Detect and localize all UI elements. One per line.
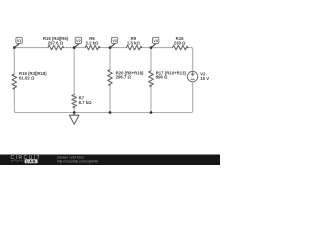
node label box V1 <box>14 43 19 47</box>
resistor R6 zigzag <box>85 45 99 50</box>
svg-text:V3: V3 <box>112 39 117 43</box>
svg-text:1.5 kΩ: 1.5 kΩ <box>127 40 141 45</box>
svg-text:296.7 Ω: 296.7 Ω <box>116 75 132 80</box>
svg-text:http://circuitlab.com/cqb/948: http://circuitlab.com/cqb/948 <box>57 159 98 163</box>
logo LAB box <box>25 159 38 163</box>
resistor R9 zigzag <box>127 45 142 50</box>
logo waveform <box>11 159 23 161</box>
svg-text:3.2 kΩ: 3.2 kΩ <box>85 40 99 45</box>
wire top mid3 <box>140 47 172 49</box>
wire source bottom vertical <box>191 82 193 113</box>
watermark bar <box>0 155 220 166</box>
svg-text:15 V: 15 V <box>200 76 209 81</box>
wire branch V3 vertical lower <box>109 84 111 113</box>
svg-text:V1: V1 <box>17 39 22 43</box>
junction node V1 corner <box>13 46 16 49</box>
voltage source plus sign <box>191 73 194 76</box>
resistor R19 (R3||R18) zigzag vertical <box>12 74 17 89</box>
resistor R7 zigzag vertical <box>72 95 77 108</box>
wire top mid1 <box>63 47 85 49</box>
svg-text:239 Ω: 239 Ω <box>174 40 186 45</box>
junction node bottom R20 <box>109 111 112 114</box>
junction node V2 top <box>73 46 76 49</box>
resistor R18 (R4||R5) zigzag <box>48 45 63 50</box>
wire top mid2 <box>99 47 127 49</box>
wire branch V2 vertical lower <box>73 106 75 112</box>
resistor R16 zigzag <box>173 45 188 50</box>
wire top horizontal <box>14 47 48 49</box>
junction node bottom ground <box>73 111 76 114</box>
node label box V2 <box>74 43 79 47</box>
junction node V3 top <box>109 46 112 49</box>
wire branch V3 vertical upper <box>109 48 111 70</box>
wire left vertical upper <box>13 48 15 74</box>
ground symbol <box>69 113 79 125</box>
node label box V3 <box>110 43 115 47</box>
svg-text:896 Ω: 896 Ω <box>156 75 168 80</box>
resistor R20 (R8+R16) zigzag vertical <box>108 70 113 86</box>
voltage source minus sign <box>191 78 194 80</box>
wire branch V4 vertical upper <box>150 48 152 71</box>
wire top right + corner down to source <box>187 48 193 72</box>
svg-text:V2: V2 <box>76 39 81 43</box>
wire left vertical lower <box>14 88 16 113</box>
wire branch V4 vertical lower <box>150 85 152 112</box>
junction node bottom R17 <box>150 111 153 114</box>
wire branch V2 vertical upper <box>73 48 75 95</box>
svg-text:297.6 Ω: 297.6 Ω <box>48 40 64 45</box>
resistor R17 (R10+R13) zigzag vertical <box>149 71 154 87</box>
node label box V4 <box>151 43 156 47</box>
junction node V4 top <box>150 46 153 49</box>
wire bottom horizontal <box>16 112 191 114</box>
voltage source V2 circle <box>187 71 197 81</box>
svg-text:8.7 kΩ: 8.7 kΩ <box>79 100 93 105</box>
svg-text:61.62 Ω: 61.62 Ω <box>19 75 35 80</box>
svg-text:LAB: LAB <box>26 160 36 164</box>
